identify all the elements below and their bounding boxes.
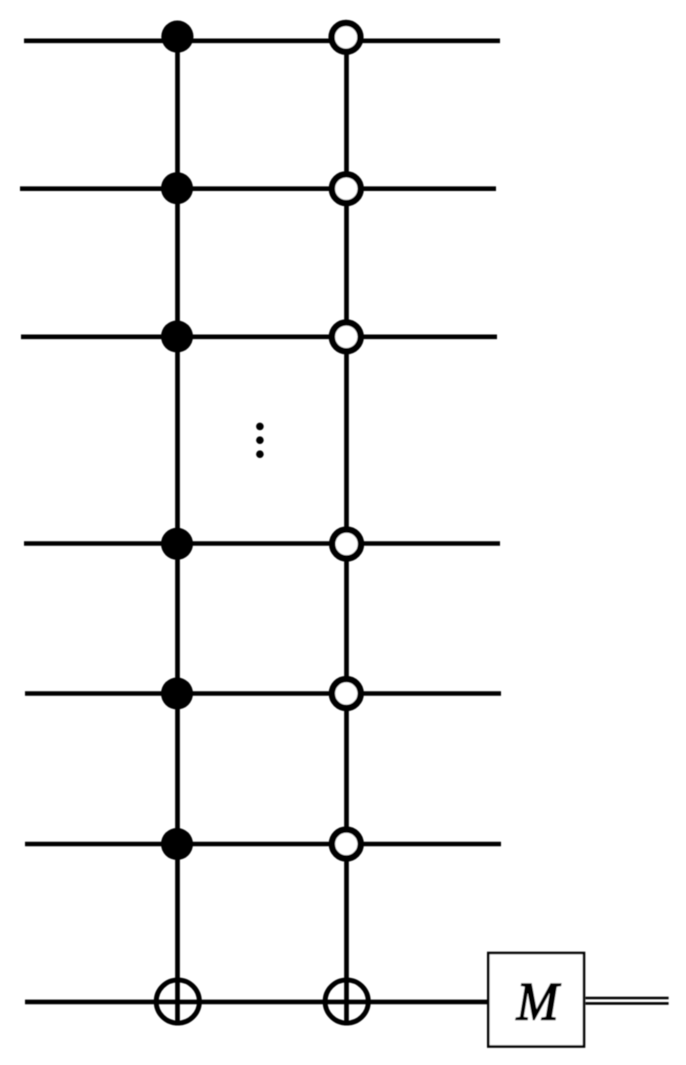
wire q5 (25, 691, 501, 696)
control dot C1 (row 1) (161, 20, 193, 52)
wire q4 (24, 541, 500, 546)
wire q6 (25, 842, 501, 847)
control dot C3 (row 3) (161, 321, 193, 353)
wire q3 (21, 334, 497, 339)
control dot C2 (row 2) (161, 172, 193, 204)
anti-control O6 (row 6) (332, 830, 361, 859)
anti-control O4 (row 4) (332, 530, 361, 559)
wire q1 (24, 38, 500, 43)
svg-text:M: M (516, 971, 562, 1031)
anti-control O3 (row 3) (332, 322, 361, 351)
control dot C4 (row 4) (161, 528, 193, 560)
classical double wire (upper) (586, 997, 669, 1000)
wire control column 2 vertical (344, 37, 349, 1025)
anti-control O5 (row 5) (332, 679, 361, 708)
wire q2 (20, 186, 496, 191)
control dot C5 (row 5) (161, 678, 193, 710)
anti-control O2 (row 2) (332, 174, 361, 203)
CNOT target X2 (column 2, row 7) (325, 980, 368, 1023)
measurement box M (488, 953, 584, 1047)
CNOT target X1 (column 1, row 7) (156, 980, 199, 1023)
anti-control O1 (row 1) (332, 23, 361, 52)
wire control column 1 vertical (175, 37, 180, 1026)
wire q7 (measured qubit) (25, 1000, 488, 1005)
control dot C6 (row 6) (161, 828, 193, 860)
classical double wire (lower) (586, 1002, 669, 1005)
vertical ellipsis dots between q3 and q4 (256, 423, 264, 431)
